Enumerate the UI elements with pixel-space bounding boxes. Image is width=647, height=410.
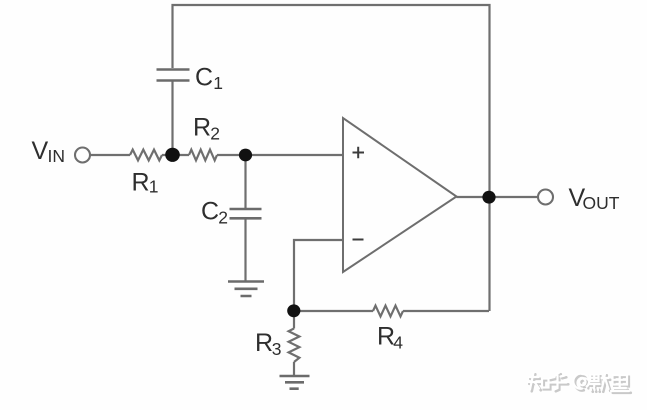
wire R3 bottom lead	[293, 362, 295, 375]
svg-text:C: C	[195, 64, 213, 92]
wire R3 top lead	[293, 311, 295, 329]
op-amp minus input marker	[353, 239, 364, 241]
resistor R4	[373, 306, 403, 317]
wire R2 to op-amp plus input	[217, 154, 343, 156]
svg-text:C: C	[201, 198, 219, 226]
svg-text:IN: IN	[48, 146, 66, 166]
wire bottom feedback left of R4	[294, 310, 373, 312]
terminal VIN circle	[75, 148, 90, 163]
wire R1 to R2	[162, 154, 189, 156]
svg-text:R: R	[132, 169, 150, 197]
wire C2 top lead	[244, 155, 246, 208]
svg-text:R: R	[255, 329, 273, 357]
node junction dot R1/R2/C1	[165, 148, 180, 162]
wire C2 bottom lead	[244, 219, 246, 281]
wire top feedback rail	[173, 5, 490, 311]
wire minus input feedback	[294, 240, 343, 311]
svg-text:R: R	[193, 114, 211, 142]
wire output	[457, 196, 539, 198]
resistor R1	[130, 150, 162, 161]
svg-text:3: 3	[272, 339, 282, 359]
node junction dot output	[482, 191, 495, 204]
ground below R3	[280, 376, 310, 389]
capacitor C1	[157, 70, 190, 81]
svg-text:V: V	[32, 137, 49, 165]
wire C1 bottom lead	[171, 81, 173, 149]
resistor R2	[189, 150, 217, 161]
svg-text:1: 1	[213, 73, 223, 93]
svg-text:2: 2	[218, 207, 228, 227]
op-amp U1	[343, 118, 457, 272]
node junction dot R3/R4	[287, 304, 300, 317]
terminal VOUT circle	[538, 190, 553, 205]
node junction dot R2/C2	[239, 149, 252, 162]
svg-text:1: 1	[149, 176, 159, 196]
svg-text:OUT: OUT	[583, 193, 620, 213]
resistor R3	[289, 329, 300, 363]
svg-text:2: 2	[210, 123, 220, 143]
capacitor C2	[230, 209, 262, 218]
wire R4 to right rail	[403, 310, 489, 312]
svg-text:4: 4	[393, 333, 403, 353]
op-amp plus input marker	[353, 147, 365, 159]
ground below C2	[228, 282, 264, 297]
wire input to R1	[90, 154, 130, 156]
